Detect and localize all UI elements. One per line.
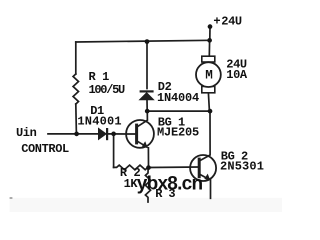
wire: D2 branch top lead xyxy=(146,42,148,89)
wire: BG2 emitter lead down xyxy=(210,180,212,198)
node: emitter / R2 / R3 junction xyxy=(146,165,151,170)
wire: left branch top lead to R1 xyxy=(75,42,77,74)
wire: top rail junction down to motor + terminal xyxy=(208,40,210,56)
svg-text:MJE205: MJE205 xyxy=(157,126,199,140)
svg-text:1N4004: 1N4004 xyxy=(157,91,199,105)
svg-text:M: M xyxy=(205,69,212,83)
wire: Vin control input line xyxy=(48,133,98,135)
node: D1 cathode / R2 junction xyxy=(111,132,116,137)
wire: motor - terminal down to collector rail xyxy=(208,93,209,111)
diode D1 (series input diode) xyxy=(98,128,107,140)
resistor R1 xyxy=(73,74,78,104)
wire: BG1 collector xyxy=(146,111,148,120)
transistor BG2 (2N5301) xyxy=(190,155,216,181)
node: top rail / motor junction xyxy=(207,38,212,43)
node: R1 / Vin junction xyxy=(74,132,79,137)
wire: D2 anode to collector rail xyxy=(146,100,148,111)
svg-text:+24U: +24U xyxy=(213,15,242,29)
motor M 24V 10A xyxy=(196,56,221,93)
wire: BG2 collector up to motor xyxy=(209,111,211,155)
wire: collector rail between BG1 and motor xyxy=(147,110,210,112)
node: D2 / BG1 collector junction xyxy=(145,109,150,114)
wire: BG1 emitter down to node E xyxy=(147,148,149,168)
wire: emitter node to BG2 base xyxy=(149,166,199,169)
svg-text:CONTROL: CONTROL xyxy=(21,142,69,156)
wire: D1 cathode to BG1 base node xyxy=(108,133,136,135)
node: D2 top rail junction xyxy=(145,39,150,44)
node: motor / BG2 collector junction xyxy=(208,109,213,114)
svg-text:ybx8.cn: ybx8.cn xyxy=(137,174,203,195)
svg-text:1N4001: 1N4001 xyxy=(77,114,121,128)
svg-text:R 1: R 1 xyxy=(89,70,110,84)
grey footer band xyxy=(10,198,283,212)
svg-text:10A: 10A xyxy=(226,68,248,82)
wire: R1 bottom lead to Vin node xyxy=(75,104,78,134)
wire: node B down to R2 xyxy=(113,134,115,167)
transistor BG1 (MJE205) xyxy=(126,120,154,148)
node: +24V terminal dot xyxy=(208,24,213,29)
wire: +24V top rail xyxy=(76,40,210,42)
diode D2 (flyback) xyxy=(139,91,153,99)
resistor R2 xyxy=(114,165,151,170)
resistor R3 xyxy=(145,168,150,202)
wire: +24V terminal stub xyxy=(209,27,211,41)
svg-text:Uin: Uin xyxy=(16,126,37,140)
svg-text:2N5301: 2N5301 xyxy=(220,160,264,174)
svg-text:100/5U: 100/5U xyxy=(89,83,126,97)
small dark tick bottom-left xyxy=(10,197,13,198)
